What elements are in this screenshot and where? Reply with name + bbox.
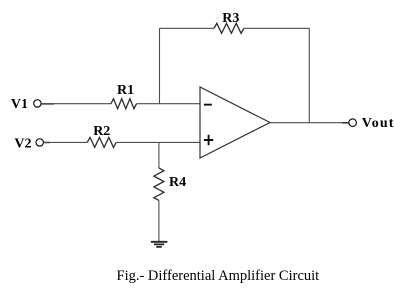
wire feedback left vertical [159,28,161,103]
wire V2 to R2 [44,141,88,143]
svg-text:R3: R3 [222,11,239,26]
resistor R2 [87,137,116,147]
op-amp inverting pin minus sign [204,104,212,106]
svg-text:R1: R1 [117,83,134,98]
wire feedback top right segment [244,27,309,29]
wire stub at Vout terminal [342,122,349,124]
node V1 terminal [34,100,41,107]
wire stub at V1 terminal [41,103,54,105]
wire R4 upper stem [158,142,160,168]
resistor R4 [154,168,164,200]
op-amp U1 [200,87,270,158]
svg-text:Vout: Vout [362,116,394,131]
wire feedback right vertical [308,28,310,123]
wire feedback top left segment [160,27,215,29]
node V2 terminal [36,139,43,146]
svg-text:R4: R4 [169,175,186,190]
wire R4 lower stem [158,200,160,241]
wire R1 to op-amp inverting input [137,103,201,105]
resistor R1 [111,99,137,109]
svg-text:V1: V1 [11,97,28,112]
wire stub at V2 terminal [44,142,50,144]
node Vout terminal [349,119,357,127]
op-amp non-inverting pin plus sign [204,135,213,145]
resistor R3 [214,23,244,33]
svg-text:V2: V2 [14,137,31,152]
svg-text:Fig.- Differential Amplifier C: Fig.- Differential Amplifier Circuit [117,268,320,284]
svg-text:R2: R2 [93,124,110,139]
wire R2 to op-amp non-inverting input [116,141,200,143]
ground [151,242,168,247]
wire V1 to R1 [41,103,111,105]
wire op-amp output [270,122,349,124]
